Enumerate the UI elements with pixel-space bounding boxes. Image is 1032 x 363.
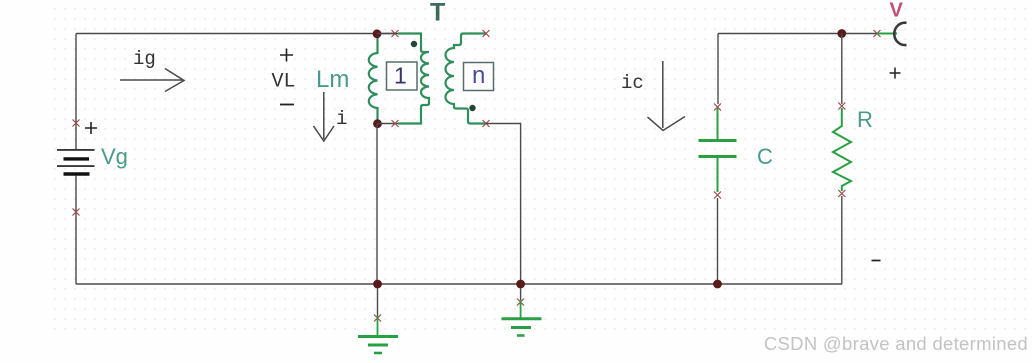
svg-text:Vg: Vg	[101, 144, 128, 169]
polarity dot secondary	[469, 105, 475, 111]
voltage probe V	[877, 23, 907, 45]
minus sign probe	[872, 260, 881, 262]
pin marker secondary bottom	[483, 120, 490, 127]
svg-text:C: C	[757, 144, 773, 169]
capacitor C	[699, 108, 737, 192]
svg-text:V: V	[890, 0, 904, 22]
pin marker source plus	[73, 120, 80, 127]
pin marker resistor bottom	[838, 190, 845, 197]
wire Lm node to bottom rail	[376, 124, 378, 284]
resistor R	[833, 108, 851, 191]
transformer primary winding	[398, 34, 429, 124]
svg-text:T: T	[430, 0, 445, 27]
pin marker resistor top	[838, 103, 845, 110]
pin marker secondary top	[483, 30, 490, 37]
svg-text:ic: ic	[621, 72, 644, 94]
minus sign VL	[280, 104, 294, 106]
svg-text:Lm: Lm	[316, 66, 349, 93]
battery Vg	[57, 150, 95, 174]
pin marker source minus	[73, 209, 80, 216]
svg-text:VL: VL	[272, 71, 296, 94]
pin marker primary top	[392, 30, 399, 37]
node dot top Lm	[373, 29, 382, 38]
arrow ig	[120, 69, 184, 92]
plus sign VL	[280, 49, 293, 62]
watermark	[764, 333, 1028, 355]
arrow ic	[648, 61, 686, 131]
wire top rail right	[718, 33, 877, 35]
svg-text:R: R	[857, 107, 873, 132]
pin marker primary bottom	[392, 120, 399, 127]
pin marker right ground	[517, 299, 524, 306]
wire capacitor branch lower	[717, 198, 719, 284]
wire resistor branch lower	[841, 196, 843, 284]
pin marker capacitor bottom	[714, 192, 721, 199]
svg-text:ig: ig	[133, 48, 156, 70]
inductor Lm	[369, 37, 378, 121]
plus sign probe	[890, 68, 901, 79]
box secondary ratio n	[464, 63, 494, 91]
ground right	[502, 288, 542, 336]
pin marker left ground	[374, 315, 381, 322]
junction dot right ground	[516, 280, 525, 289]
svg-text:1: 1	[394, 63, 407, 89]
wire resistor branch upper	[841, 34, 843, 105]
wire capacitor branch upper	[717, 34, 719, 105]
plus sign battery	[85, 122, 97, 134]
wire left vertical upper	[75, 34, 77, 150]
box primary ratio 1	[387, 62, 418, 90]
wire primary bottom stub	[377, 34, 398, 124]
transformer secondary winding	[446, 34, 487, 124]
svg-text:n: n	[472, 62, 485, 89]
arrow i	[314, 92, 335, 141]
node dot bottom Lm	[373, 119, 382, 128]
junction dot left ground	[373, 280, 382, 289]
polarity dot primary	[411, 41, 417, 47]
wire bottom rail	[76, 283, 842, 285]
ground left	[358, 288, 398, 353]
pin marker capacitor top	[714, 104, 721, 111]
svg-text:i: i	[336, 108, 347, 130]
wire secondary to ground node	[486, 124, 521, 285]
wire left vertical lower	[75, 176, 77, 285]
wire top rail left	[76, 33, 395, 35]
pin marker probe	[874, 30, 881, 37]
junction dot capacitor	[713, 280, 722, 289]
node dot output	[837, 29, 846, 38]
